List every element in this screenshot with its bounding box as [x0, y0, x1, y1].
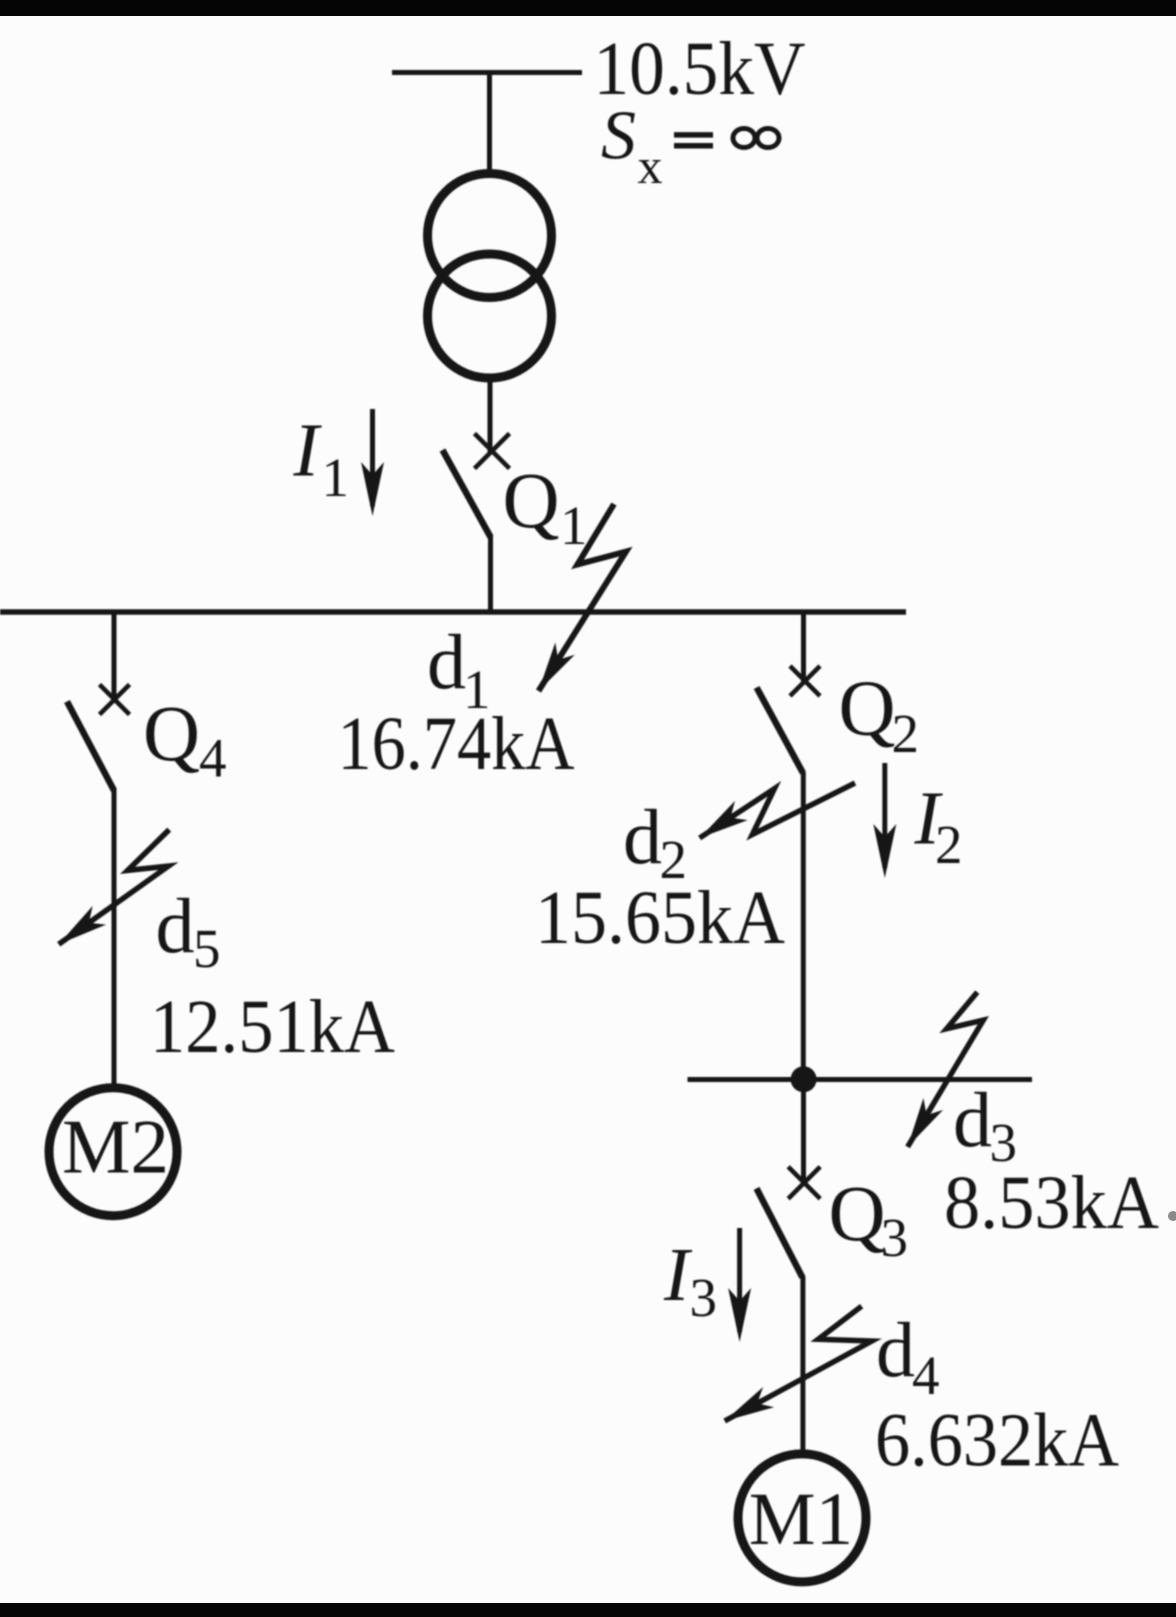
svg-text:I: I	[293, 409, 323, 493]
svg-text:6.632kA: 6.632kA	[875, 1399, 1119, 1483]
svg-text:3: 3	[881, 1207, 909, 1268]
label d3	[953, 1076, 1017, 1173]
bottom border bar	[0, 1603, 1176, 1617]
label d1	[427, 618, 491, 720]
fault bolt d5	[59, 830, 170, 945]
breaker Q2 contact cross	[790, 666, 820, 696]
sub-busbar at node	[688, 1077, 1033, 1082]
wire: busbar to breaker Q4	[112, 612, 117, 700]
wire: source bar to transformer T1	[487, 72, 492, 174]
fault bolt d4	[725, 1306, 872, 1421]
svg-text:15.65kA: 15.65kA	[535, 876, 785, 960]
motor M2	[49, 1088, 177, 1216]
breaker Q1 blade	[443, 450, 491, 537]
svg-text:d: d	[953, 1076, 992, 1163]
motor M1	[738, 1454, 866, 1582]
svg-text:Q: Q	[143, 691, 200, 778]
wire: breaker Q3 to motor M1	[800, 1276, 805, 1456]
transformer T1 (two-winding)	[428, 174, 552, 379]
svg-text:1: 1	[322, 447, 350, 508]
label d4	[876, 1306, 940, 1406]
wire: breaker Q4 to motor M2	[112, 789, 117, 1086]
svg-text:I: I	[663, 1233, 693, 1317]
svg-text:d: d	[876, 1306, 915, 1393]
svg-text:5: 5	[193, 918, 221, 979]
current arrow I1	[370, 409, 375, 506]
svg-text:4: 4	[912, 1345, 940, 1406]
label Q4	[143, 691, 227, 789]
label I2	[914, 776, 963, 875]
svg-text:x: x	[638, 138, 663, 194]
label Q1	[503, 458, 588, 556]
svg-text:d: d	[427, 618, 466, 705]
breaker Q3 blade	[757, 1188, 803, 1277]
svg-text:M1: M1	[749, 1478, 853, 1561]
fault bolt d2	[700, 783, 855, 838]
breaker Q3 contact cross	[788, 1167, 820, 1199]
junction node (dot)	[791, 1066, 817, 1092]
svg-text:3: 3	[690, 1267, 718, 1328]
breaker Q1 contact cross	[475, 434, 510, 469]
breaker Q4 blade	[67, 702, 114, 791]
svg-text:12.51kA: 12.51kA	[150, 985, 395, 1069]
fault bolt d3	[908, 992, 984, 1147]
svg-text:16.74kA: 16.74kA	[338, 702, 575, 786]
wire: breaker Q1 to busbar	[488, 535, 493, 614]
label d5	[156, 882, 221, 979]
label I3	[663, 1233, 717, 1328]
svg-text:Q: Q	[503, 458, 560, 545]
label I1	[293, 409, 350, 509]
svg-text:d: d	[623, 793, 662, 880]
current arrow I3	[737, 1228, 742, 1332]
svg-text:Q: Q	[839, 666, 896, 753]
svg-text:M2: M2	[62, 1104, 169, 1190]
fault bolt d1	[539, 504, 627, 691]
wire: transformer to breaker Q1	[488, 378, 493, 452]
svg-text:4: 4	[199, 728, 227, 789]
svg-text:Q: Q	[829, 1171, 886, 1258]
svg-text:d: d	[156, 882, 195, 969]
label Q3	[829, 1171, 909, 1268]
breaker Q4 contact cross	[100, 685, 130, 715]
breaker Q2 blade	[757, 688, 803, 774]
label Sx = infinity	[601, 98, 779, 195]
svg-text:S: S	[601, 98, 636, 175]
svg-text:1: 1	[560, 495, 588, 556]
partially cropped period after 8.53kA at page edge	[1168, 1211, 1176, 1221]
main busbar	[0, 609, 906, 615]
wire: breaker Q2 to junction node	[801, 772, 806, 1080]
svg-text:8.53kA: 8.53kA	[944, 1161, 1159, 1245]
wire: junction node to breaker Q3	[801, 1079, 806, 1183]
svg-text:2: 2	[935, 814, 963, 875]
svg-text:2: 2	[892, 703, 920, 764]
current arrow I2	[882, 763, 887, 868]
wire: busbar to breaker Q2	[801, 612, 806, 682]
label Q2	[839, 666, 920, 765]
top border bar	[0, 0, 1176, 16]
label d2	[623, 793, 687, 890]
source bar (10.5kV infinite system terminal)	[392, 70, 582, 75]
